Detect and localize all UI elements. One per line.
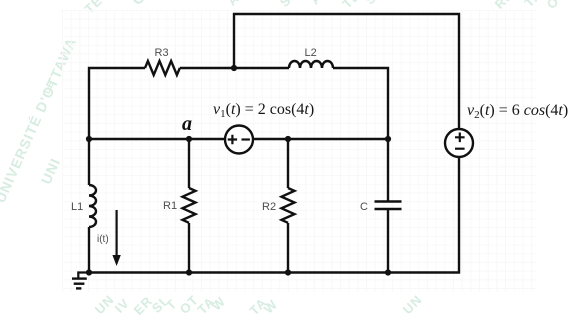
inductor L1 bbox=[89, 185, 96, 227]
ground bars bbox=[72, 279, 87, 289]
junction dot C top bbox=[385, 136, 391, 142]
wire R2 bottom lead bbox=[287, 223, 289, 273]
svg-text:R1: R1 bbox=[163, 200, 177, 212]
v1 minus sign bbox=[242, 138, 250, 140]
junction dot ground rail R1 bbox=[186, 269, 192, 275]
svg-text:R3: R3 bbox=[155, 47, 169, 59]
wire R2 top lead bbox=[287, 139, 289, 188]
junction dot R2 top bbox=[285, 136, 291, 142]
wire top loop from node above R3-L2 to v2 top bbox=[234, 14, 459, 129]
v2 minus sign bbox=[455, 148, 465, 150]
junction dot ground rail left bbox=[86, 269, 92, 275]
resistor R1 bbox=[183, 188, 196, 223]
v1 plus sign bbox=[228, 135, 237, 144]
junction dot ground rail R2 bbox=[285, 269, 291, 275]
svg-text:R2: R2 bbox=[262, 201, 276, 213]
svg-text:v2(t) = 6 cos(4t): v2(t) = 6 cos(4t) bbox=[467, 102, 568, 121]
wire main bus left segment bbox=[89, 138, 225, 140]
svg-text:i(t): i(t) bbox=[97, 234, 109, 245]
wire L1 bottom to ground rail bbox=[88, 227, 90, 273]
v2 plus sign bbox=[455, 133, 465, 143]
wire left vertical to L1 top bbox=[88, 139, 90, 185]
node a junction dot bbox=[186, 136, 192, 142]
wire v2 bottom to ground rail bbox=[89, 157, 459, 273]
svg-text:a: a bbox=[182, 113, 192, 135]
wire main bus right segment bbox=[253, 138, 388, 140]
current arrow head bbox=[112, 255, 120, 266]
wire C top lead bbox=[387, 139, 389, 202]
inductor L2 bbox=[289, 61, 333, 68]
capacitor C bbox=[375, 202, 402, 210]
ground stub bbox=[78, 273, 89, 279]
svg-text:C: C bbox=[360, 201, 368, 213]
wire C bottom lead bbox=[387, 209, 389, 273]
junction dot at top rail bbox=[231, 65, 237, 71]
wire left vertical upper (top rail to L1) bbox=[89, 68, 145, 139]
svg-text:v1(t) = 2 cos(4t): v1(t) = 2 cos(4t) bbox=[213, 101, 314, 120]
wire R1 top lead bbox=[188, 139, 190, 188]
source v2 circle bbox=[445, 129, 473, 157]
current arrow i(t) shaft bbox=[115, 210, 117, 257]
wire L2 to main bus bbox=[333, 68, 388, 139]
junction dot ground rail C bbox=[385, 269, 391, 275]
resistor R2 bbox=[282, 188, 295, 223]
svg-text:L2: L2 bbox=[305, 47, 317, 59]
wire R1 bottom lead bbox=[188, 223, 190, 273]
junction dot main bus left bbox=[86, 136, 92, 142]
wire R3 to L2 bbox=[180, 67, 289, 69]
resistor R3 bbox=[145, 61, 180, 75]
source v1 circle bbox=[225, 126, 253, 154]
svg-text:L1: L1 bbox=[71, 201, 83, 213]
